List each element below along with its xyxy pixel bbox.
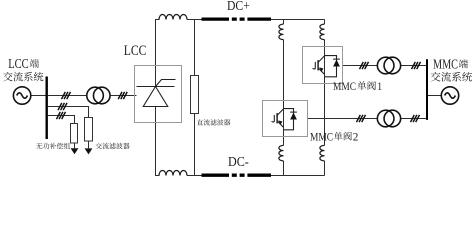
wire: MMC right branch through valve1 region: [324, 47, 326, 84]
svg-text:MMC: MMC: [333, 81, 356, 93]
svg-text:DC+: DC+: [227, 0, 250, 14]
inductor L6 (lower arm reactor, right branch): [320, 145, 325, 161]
capacitor bank: reactive power compensation (无功补偿组): [71, 124, 78, 144]
wire: LCC valve bottom to DC- reactor: [156, 107, 160, 176]
three-phase marks, bus to T1: [62, 92, 71, 99]
three-phase marks, T3 to bus: [411, 115, 420, 122]
busbar B1 (LCC AC bus): [46, 77, 48, 140]
wire: AC filter branch tap: [48, 116, 75, 124]
label: 交流系统 (AC system, MMC side): [431, 72, 472, 82]
wire: valve2 output to transformer T3: [308, 118, 378, 120]
wire: bus to transformer T1 (phase line): [48, 95, 87, 97]
wire: DC- pole, reactor to line: [187, 175, 202, 177]
three-phase marks, compensation branch: [58, 103, 67, 110]
inductor L1 (DC+ smoothing reactor): [159, 15, 187, 20]
inductor L4 (upper arm reactor, right branch): [320, 24, 325, 40]
inductor L5 (lower arm reactor, left branch): [279, 145, 284, 161]
wire: DC filter shunt branch, lower: [194, 114, 196, 176]
wire: LCC valve top to DC+ smoothing reactor: [156, 20, 160, 87]
svg-text:DC-: DC-: [228, 155, 249, 170]
inductor L3 (upper arm reactor, left branch): [279, 24, 284, 40]
converter block outline, LCC valve: [135, 66, 182, 123]
wire: DC- bottom rail into MMC: [271, 175, 325, 177]
wire: MMC right branch upper: [324, 20, 326, 25]
wire: transformer T3 to MMC busbar: [401, 118, 427, 120]
svg-text:1: 1: [377, 81, 382, 93]
svg-text:MMC: MMC: [310, 132, 333, 144]
DC+ transmission line (thick dashed): [202, 17, 272, 20]
label: 直流滤波器 (DC filter): [197, 119, 231, 125]
wire: LCC AC source to busbar: [31, 95, 46, 97]
wire: valve1 output to transformer T2: [343, 65, 378, 67]
transformer T3 (MMC transformer, lower): [377, 110, 400, 127]
wire: transformer T1 to LCC converter: [110, 95, 137, 97]
wire: DC+ top rail into MMC: [271, 19, 325, 21]
wire: transformer T2 to MMC busbar: [401, 65, 427, 67]
filter: AC filter (交流滤波器): [85, 118, 93, 142]
label: LCC端 (LCC side): [8, 57, 39, 72]
label: 交流系统 (AC system, LCC side): [3, 72, 43, 81]
wire: MMC left branch lower: [283, 137, 285, 146]
busbar B2 (MMC AC bus): [426, 59, 428, 120]
wire: compensation branch tap: [48, 107, 89, 118]
label: MMC单阀1 (MMC valve 1): [333, 81, 382, 93]
label: 交流滤波器 (AC filter): [96, 143, 130, 149]
wire: MMC busbar to AC source G2: [427, 95, 441, 97]
label: MMC端 (MMC side): [433, 58, 468, 73]
wire: MMC left branch through valve2 region: [283, 101, 285, 137]
DC- transmission line (thick dashed): [202, 174, 272, 177]
svg-text:MMC: MMC: [433, 58, 458, 73]
three-phase marks, valve1 output: [360, 62, 369, 69]
three-phase marks, T1 to LCC: [118, 92, 127, 99]
transformer T2 (MMC transformer, upper): [377, 57, 400, 74]
inductor L2 (DC- smoothing reactor): [159, 171, 187, 176]
wire: MMC right branch lower: [324, 84, 326, 146]
filter: DC filter (直流滤波器): [191, 76, 199, 114]
MMC valve U2 (MMC单阀1) with IGBT Q1 and diode D1: [303, 47, 343, 84]
thyristor V1 (LCC valve symbol): [137, 80, 176, 107]
label: MMC单阀2 (MMC valve 2): [310, 132, 358, 144]
svg-text:2: 2: [353, 132, 359, 144]
svg-text:LCC: LCC: [124, 43, 147, 59]
wire: DC filter shunt branch, upper: [194, 20, 196, 76]
wire: MMC left branch upper: [283, 20, 285, 25]
ground (AC filter): [85, 148, 93, 154]
three-phase marks, valve2 output: [357, 115, 366, 122]
label: 无功补偿组 (reactive power compensation bank): [36, 143, 70, 149]
MMC valve U3 (MMC单阀2) with IGBT Q2 and diode D2: [263, 101, 308, 137]
wire: DC+ pole, reactor to line: [187, 19, 202, 21]
svg-text:LCC: LCC: [8, 57, 29, 72]
AC source G1 (LCC-side grid): [13, 87, 30, 104]
three-phase marks, T2 to bus: [412, 62, 421, 69]
AC source G2 (MMC-side grid): [441, 87, 458, 104]
transformer T1 (LCC converter transformer): [87, 87, 110, 104]
three-phase marks, AC filter branch: [57, 112, 66, 119]
ground (compensation bank): [71, 148, 79, 154]
